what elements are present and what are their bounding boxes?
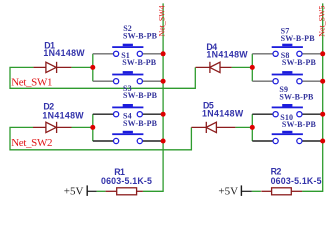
svg-text:0603-5.1K-5: 0603-5.1K-5: [101, 176, 152, 186]
label R2: [271, 166, 322, 185]
svg-text:+5V: +5V: [218, 185, 238, 197]
label R1: [101, 167, 152, 186]
switch S8 pin stubs row B right bank: [252, 80, 322, 82]
switch S4 pin stubs row D left bank: [93, 140, 163, 142]
junction dots on Net_SW4 vertical: [161, 51, 166, 143]
wire left-bottom bank vertical: [92, 114, 94, 141]
label S3: [123, 84, 158, 100]
svg-text:1N4148W: 1N4148W: [43, 48, 85, 58]
label S7: [281, 26, 316, 43]
diode D4 symbol (points left): [196, 62, 232, 73]
resistor R2 symbol: [261, 188, 302, 195]
svg-text:Net_SW4: Net_SW4: [157, 5, 166, 36]
svg-text:1N4148W: 1N4148W: [42, 110, 84, 120]
junction dot D5/right bank: [250, 125, 255, 130]
svg-text:SW-B-PB: SW-B-PB: [282, 120, 317, 129]
diode D1 symbol: [33, 62, 71, 73]
wire D2 cathode to left bank vertical: [72, 126, 93, 128]
power flag +5V left: [64, 185, 97, 197]
junction dots on Net_SW5 vertical: [320, 51, 325, 143]
switch S9 pin stubs row C right bank: [252, 113, 322, 115]
svg-text:1N4148W: 1N4148W: [206, 50, 248, 60]
svg-text:SW-B-PB: SW-B-PB: [123, 31, 158, 40]
label S4: [123, 112, 158, 128]
wire R1 left green segment: [97, 190, 106, 192]
wire right-top bank vertical: [251, 54, 253, 81]
switch symbol row C left (S3): [112, 104, 143, 117]
wire D5 anode to right bank vertical: [235, 126, 252, 128]
diode D5 symbol (points left): [191, 122, 235, 133]
switch S10 pin stubs row D right bank: [252, 140, 322, 142]
label S9: [279, 85, 314, 102]
switch symbol row A left (S2): [112, 44, 143, 57]
switch S2 pin stubs row A left bank: [93, 53, 163, 55]
switch S7 pin stubs row A right bank: [252, 53, 322, 55]
junction dot D1/left bank: [90, 65, 95, 70]
wire Net_SW1 loop (D1 left, down, right, up to D4): [10, 67, 195, 88]
svg-text:SW-B-PB: SW-B-PB: [279, 93, 314, 102]
svg-text:SW-B-PB: SW-B-PB: [123, 91, 158, 100]
wire Net_SW4 common vertical with elbow to R1: [143, 3, 163, 191]
svg-text:SW-B-PB: SW-B-PB: [123, 119, 158, 128]
label S10: [280, 113, 316, 129]
switch symbol row D left (S4): [112, 131, 143, 144]
svg-text:SW-B-PB: SW-B-PB: [122, 58, 157, 67]
label S2: [123, 24, 158, 40]
label D2: [42, 102, 84, 121]
switch symbol row B left (S1): [112, 71, 143, 84]
junction dot D2/left bank: [90, 125, 95, 130]
svg-text:Net_SW1: Net_SW1: [11, 77, 52, 89]
diode D2 symbol: [33, 122, 72, 133]
switch symbol row D right (S10): [272, 131, 303, 144]
switch symbol row B right (S8): [272, 71, 303, 84]
wire Net_SW2 loop (D2 left, down, right, up to D5): [10, 127, 191, 149]
power flag +5V right: [218, 185, 251, 197]
wire D1 cathode to left bank vertical: [71, 66, 92, 68]
label D5: [202, 100, 244, 118]
resistor R1 symbol: [106, 188, 143, 195]
label D4: [206, 42, 248, 60]
label D1: [43, 40, 85, 58]
wire D4 anode to right bank vertical: [232, 66, 253, 68]
svg-text:SW-B-PB: SW-B-PB: [282, 58, 317, 67]
label S1: [121, 51, 157, 67]
switch S3 pin stubs row C left bank: [93, 113, 163, 115]
wire R2 left green segment: [252, 190, 261, 192]
svg-text:1N4148W: 1N4148W: [202, 109, 244, 119]
svg-text:Net_SW2: Net_SW2: [11, 137, 52, 149]
label S8: [281, 51, 317, 67]
svg-text:Net_SW5: Net_SW5: [317, 6, 326, 37]
wire right-bottom bank vertical: [251, 114, 253, 141]
svg-text:+5V: +5V: [64, 185, 84, 197]
wire left-top bank vertical: [92, 54, 94, 81]
junction dot D4/right bank: [250, 65, 255, 70]
svg-text:0603-5.1K-5: 0603-5.1K-5: [271, 176, 322, 186]
wire Net_SW5 common vertical with elbow to R2: [302, 3, 323, 191]
switch symbol row A right (S7): [272, 44, 303, 57]
switch symbol row C right (S9): [272, 104, 303, 117]
switch S1 pin stubs row B left bank: [93, 80, 163, 82]
svg-text:SW-B-PB: SW-B-PB: [281, 34, 316, 43]
